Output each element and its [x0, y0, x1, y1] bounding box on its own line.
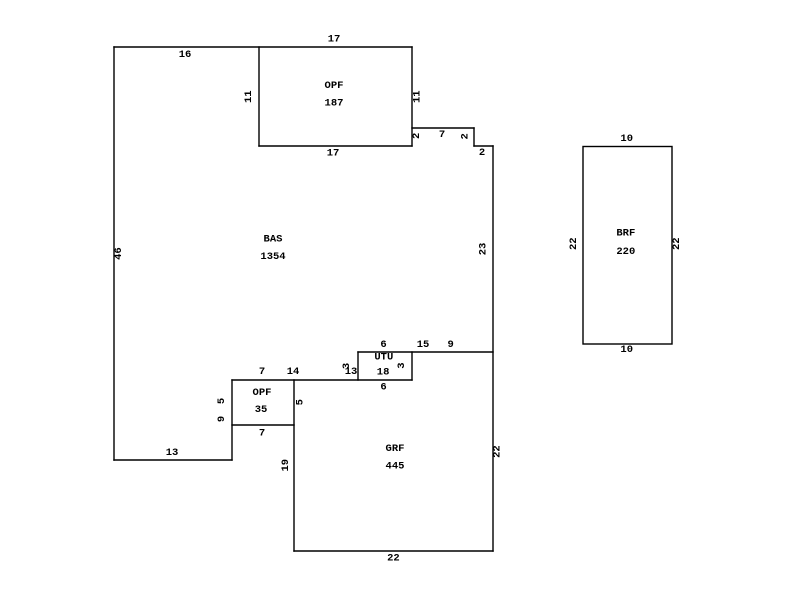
svg-text:46: 46 — [113, 247, 125, 260]
wire step top — [412, 127, 474, 129]
svg-text:17: 17 — [327, 147, 340, 159]
svg-text:2: 2 — [459, 133, 471, 139]
wire GRF left edge — [293, 380, 295, 551]
svg-text:BAS: BAS — [264, 233, 283, 245]
svg-text:2: 2 — [411, 133, 423, 139]
svg-text:10: 10 — [620, 344, 633, 356]
wire BAS bottom right segment — [358, 351, 493, 353]
svg-text:OPF: OPF — [325, 80, 344, 92]
wire UTU right edge — [411, 352, 413, 380]
wire OPF35 bottom edge — [232, 424, 294, 426]
wire UTU left edge — [357, 352, 359, 380]
svg-text:7: 7 — [259, 428, 265, 440]
wire BAS left edge — [113, 47, 115, 460]
svg-text:2: 2 — [479, 147, 485, 159]
svg-text:10: 10 — [620, 133, 633, 145]
svg-text:16: 16 — [179, 49, 192, 61]
wire GRF bottom edge — [294, 550, 493, 552]
svg-text:UTU: UTU — [374, 351, 393, 363]
svg-text:1354: 1354 — [260, 251, 285, 263]
svg-text:7: 7 — [259, 366, 265, 378]
svg-text:5: 5 — [295, 399, 307, 405]
svg-text:GRF: GRF — [386, 443, 405, 455]
svg-text:445: 445 — [386, 460, 405, 472]
svg-text:11: 11 — [243, 90, 255, 103]
svg-text:22: 22 — [671, 237, 683, 250]
wire OPF187 right edge — [411, 47, 413, 146]
svg-text:187: 187 — [325, 97, 344, 109]
svg-text:23: 23 — [478, 243, 490, 256]
svg-text:9: 9 — [447, 339, 453, 351]
wire step vertical — [473, 128, 475, 146]
wire step horizontal — [474, 145, 493, 147]
svg-text:BRF: BRF — [616, 227, 635, 239]
svg-text:3: 3 — [396, 362, 408, 368]
svg-text:18: 18 — [377, 367, 390, 379]
svg-text:15: 15 — [417, 339, 430, 351]
svg-text:22: 22 — [568, 237, 580, 250]
svg-text:19: 19 — [280, 459, 292, 472]
svg-text:11: 11 — [412, 90, 424, 103]
svg-text:17: 17 — [328, 33, 341, 45]
wire right edge — [492, 146, 494, 551]
svg-text:5: 5 — [216, 398, 228, 404]
wire BAS top edge — [114, 46, 412, 48]
svg-text:13: 13 — [345, 366, 358, 378]
wire BAS bottom left edge — [114, 459, 232, 461]
wire OPF187 left edge — [258, 47, 260, 146]
svg-text:22: 22 — [387, 553, 400, 565]
wire BAS bottom middle segment — [232, 379, 412, 381]
wire BRF box — [583, 147, 672, 345]
svg-text:6: 6 — [380, 382, 386, 394]
wire left lower edge — [231, 380, 233, 460]
svg-text:7: 7 — [439, 129, 445, 141]
svg-text:220: 220 — [616, 246, 635, 258]
svg-text:9: 9 — [216, 416, 228, 422]
svg-text:22: 22 — [492, 445, 504, 458]
svg-text:OPF: OPF — [253, 387, 272, 399]
svg-text:14: 14 — [287, 366, 300, 378]
svg-text:6: 6 — [380, 339, 386, 351]
svg-text:13: 13 — [166, 447, 179, 459]
wire OPF187 bottom edge — [259, 145, 412, 147]
svg-text:35: 35 — [255, 404, 268, 416]
